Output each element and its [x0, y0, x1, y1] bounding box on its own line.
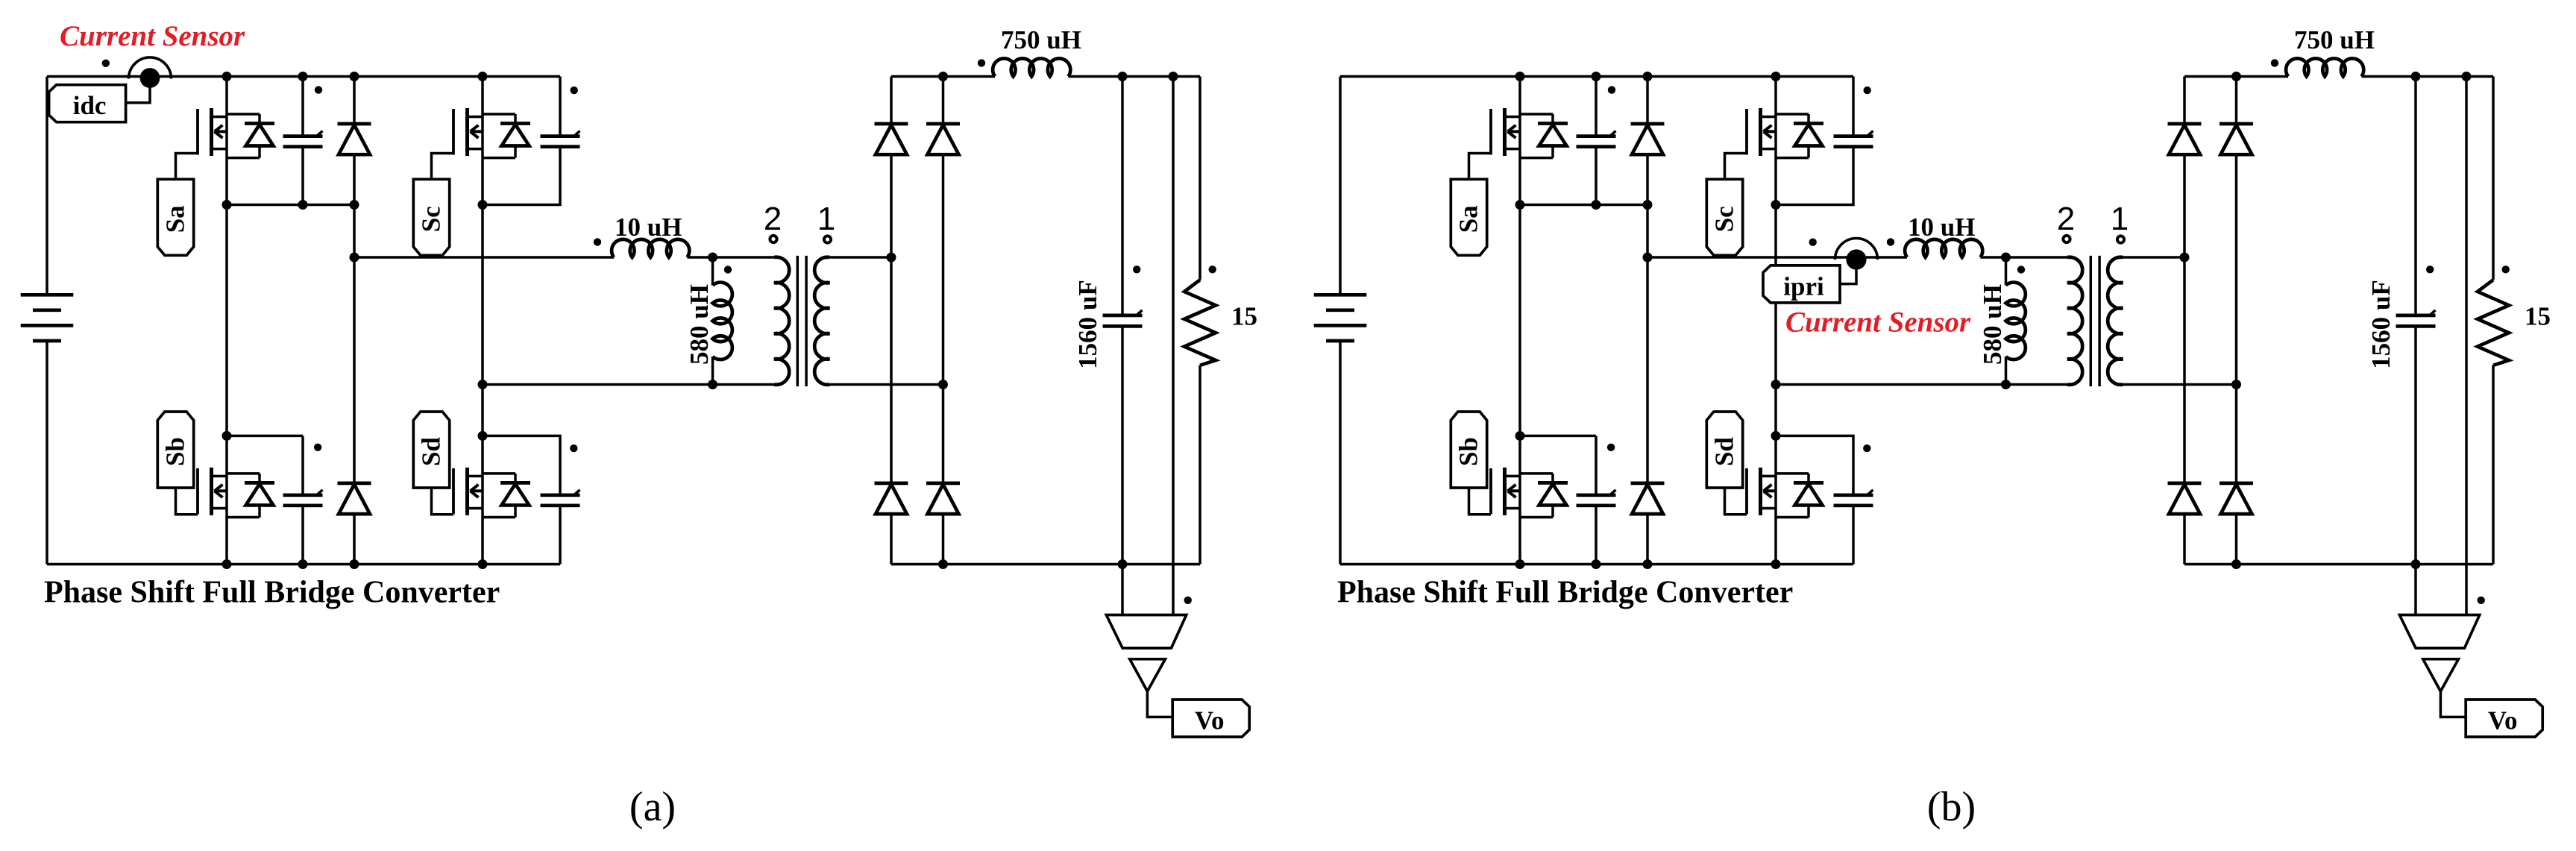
wire leg A column — [225, 77, 228, 565]
gate lead Sb — [176, 488, 198, 515]
wire mid rail leg A — [227, 204, 359, 207]
wire diode column mid — [353, 205, 356, 258]
transistor Sc — [1747, 108, 1823, 158]
wire output rail after inductor — [1068, 75, 1200, 78]
wire sensor negative lead — [1121, 565, 1124, 615]
svg-text:1: 1 — [2111, 201, 2129, 237]
node filter cap bottom — [2411, 559, 2421, 569]
gate label tag Sc — [413, 179, 449, 255]
svg-text:(b): (b) — [1927, 784, 1976, 830]
node primary top — [2001, 253, 2011, 263]
wire leg C column — [1774, 77, 1777, 565]
svg-text:10 uH: 10 uH — [615, 213, 682, 242]
wire leg A output to series inductor — [1647, 256, 1907, 259]
wire output top rail — [2184, 75, 2288, 78]
wire mid rail leg C — [483, 147, 560, 205]
node bottom rail diode A — [350, 559, 359, 569]
diode Da — [1646, 77, 1649, 125]
capacitor snubber Cd — [541, 490, 580, 565]
diode D1 rectifier — [890, 77, 893, 125]
wire sensor to Vo tag — [2440, 691, 2466, 717]
node mid rail diode A — [350, 200, 359, 210]
pin circle 1 — [824, 236, 831, 242]
marker dot voltage sensor — [2478, 597, 2485, 604]
node leg C output — [1771, 380, 1781, 389]
marker dot magnetizing inductor — [2017, 266, 2025, 273]
wire input top rail — [1340, 75, 1853, 78]
transistor Sa — [198, 108, 274, 158]
svg-text:Current Sensor: Current Sensor — [1785, 307, 1971, 339]
label tag ipri — [1763, 266, 1840, 303]
transformer secondary winding — [2108, 257, 2236, 385]
svg-text:Phase Shift Full Bridge Conver: Phase Shift Full Bridge Converter — [44, 575, 500, 609]
svg-text:Sb: Sb — [161, 437, 190, 466]
transistor Sb — [1491, 468, 1568, 518]
node mid rail Sa — [222, 200, 232, 210]
node secondary top — [2180, 253, 2190, 263]
capacitor snubber Ca — [283, 77, 323, 205]
gate label tag Sb — [157, 412, 193, 488]
capacitor snubber Cc — [541, 77, 580, 147]
voltage sensor output triangle — [1130, 659, 1166, 691]
diode Da — [353, 77, 356, 125]
svg-text:Sd: Sd — [417, 437, 446, 466]
svg-text:15: 15 — [1231, 302, 1257, 331]
marker dot load resistor — [2502, 266, 2510, 273]
marker dot output inductor — [978, 59, 985, 66]
node top rail diode A — [1643, 72, 1653, 81]
node bottom rail leg A — [222, 559, 232, 569]
marker dot filter cap — [1133, 266, 1140, 273]
inductor 580 uH magnetizing — [2006, 257, 2026, 385]
transformer secondary winding — [814, 257, 943, 385]
diode Db — [353, 257, 356, 483]
label tag idc — [49, 85, 126, 122]
node leg A output — [1643, 253, 1653, 263]
wire sensor positive lead — [2465, 77, 2468, 615]
battery V1 — [21, 77, 74, 565]
wire diode column mid — [1646, 205, 1649, 258]
node secondary top — [887, 253, 896, 263]
svg-text:Sc: Sc — [417, 206, 446, 232]
gate label tag Sb — [1451, 412, 1486, 488]
svg-text:1560 uF: 1560 uF — [2366, 280, 2396, 369]
capacitor snubber Cc — [1834, 77, 1873, 147]
node sensor column top — [2462, 72, 2472, 81]
svg-text:idc: idc — [73, 91, 107, 120]
node bottom rail leg C — [478, 559, 488, 569]
capacitor snubber Cb — [283, 436, 323, 564]
marker dot idc sensor — [102, 60, 110, 67]
svg-text:Vo: Vo — [1195, 706, 1225, 735]
svg-text:10 uH: 10 uH — [1908, 213, 1975, 242]
wire output rail after inductor — [2361, 75, 2493, 78]
transistor Sb — [198, 468, 274, 518]
marker dot magnetizing inductor — [724, 266, 732, 273]
wire rectifier right column — [2235, 385, 2238, 483]
resistor 15 load — [1184, 77, 1216, 565]
capacitor snubber Cb — [1577, 436, 1616, 564]
node Sd drain — [1771, 431, 1781, 441]
node primary bottom — [2001, 380, 2011, 389]
capacitor snubber Ca — [1577, 77, 1616, 205]
node leg A output — [350, 253, 359, 263]
transistor Sa — [1491, 108, 1568, 158]
node top rail leg A — [1515, 72, 1525, 81]
transistor Sc — [453, 108, 530, 158]
gate lead Sc — [432, 154, 454, 180]
diode Db — [1646, 257, 1649, 483]
diode D2 rectifier — [942, 77, 945, 125]
svg-text:(a): (a) — [629, 784, 676, 830]
wire sensor to Vo tag — [1147, 691, 1172, 717]
gate label tag Sc — [1706, 179, 1742, 255]
wire leg A output to series inductor — [354, 256, 614, 259]
inductor 10 uH — [1905, 239, 1982, 257]
node primary bottom — [708, 380, 717, 389]
wire leg C output to transformer — [1776, 383, 2067, 386]
node Sb drain — [1515, 431, 1525, 441]
svg-text:Sa: Sa — [1454, 205, 1483, 233]
svg-text:1: 1 — [817, 201, 835, 237]
pin circle 2 — [770, 236, 776, 242]
svg-text:Phase Shift Full Bridge Conver: Phase Shift Full Bridge Converter — [1337, 575, 1793, 609]
gate lead Sd — [1725, 488, 1747, 515]
node leg C output — [478, 380, 488, 389]
capacitor 1560 uF — [1103, 77, 1143, 565]
transformer core — [797, 256, 806, 386]
transformer primary winding — [2006, 257, 2083, 385]
svg-text:750 uH: 750 uH — [2294, 25, 2375, 54]
wire rectifier right column — [942, 385, 945, 483]
marker dot filter cap — [2426, 266, 2434, 273]
marker dot snubber Cb — [314, 444, 321, 451]
gate lead Sa — [176, 154, 198, 180]
wire Sb drain rail — [1520, 435, 1596, 438]
wire leg C column — [481, 77, 484, 565]
marker dot series inductor — [594, 238, 601, 245]
voltage sensor output triangle — [2423, 659, 2459, 691]
node rectifier bottom rail — [938, 559, 948, 569]
wire output bottom rail — [891, 563, 1200, 566]
gate lead Sb — [1469, 488, 1492, 515]
wire Sd drain rail — [1776, 436, 1853, 494]
node secondary bottom — [2231, 380, 2241, 389]
wire rectifier left column — [2183, 257, 2186, 483]
svg-text:Current Sensor: Current Sensor — [60, 20, 245, 52]
gate lead Sa — [1469, 154, 1492, 180]
marker dot snubber Ca — [315, 86, 322, 93]
marker dot series inductor — [1887, 238, 1894, 245]
node secondary bottom — [938, 380, 948, 389]
diode D4 rectifier — [2235, 482, 2238, 485]
gate label tag Sd — [413, 412, 449, 488]
gate lead Sc — [1725, 154, 1747, 180]
pin circle 1 — [2117, 236, 2124, 242]
svg-text:750 uH: 750 uH — [1001, 25, 1081, 54]
node top rail leg A — [222, 72, 232, 81]
svg-text:Sd: Sd — [1710, 437, 1739, 466]
node filter cap bottom — [1118, 559, 1128, 569]
node top rail diode A — [350, 72, 359, 81]
svg-text:580 uH: 580 uH — [1978, 284, 2007, 365]
node mid rail Sc — [478, 200, 488, 210]
svg-text:15: 15 — [2525, 302, 2551, 331]
voltage sensor Vo trapezoid — [1106, 615, 1186, 648]
svg-text:2: 2 — [764, 201, 782, 237]
node bottom rail cap A — [1592, 559, 1601, 569]
node mid rail diode A — [1643, 200, 1653, 210]
wire inductor to transformer node — [1980, 256, 2005, 259]
inductor 750 uH — [2286, 58, 2363, 76]
voltage sensor Vo trapezoid — [2399, 615, 2479, 648]
wire leg C output to transformer — [483, 383, 774, 386]
diode D2 rectifier — [2235, 77, 2238, 125]
capacitor 1560 uF — [2396, 77, 2436, 565]
svg-text:Sa: Sa — [161, 205, 190, 233]
wire mid rail leg C — [1776, 147, 1853, 205]
battery V1 — [1314, 77, 1367, 565]
wire output top rail — [891, 75, 995, 78]
diode D3 rectifier — [2183, 482, 2186, 485]
node bottom rail leg C — [1771, 559, 1781, 569]
inductor 750 uH — [993, 58, 1070, 76]
node rectifier bottom rail — [2231, 559, 2241, 569]
gate lead Sd — [432, 488, 454, 515]
inductor 10 uH — [612, 239, 689, 257]
node top rail leg C — [1771, 72, 1781, 81]
transformer primary winding — [713, 257, 790, 385]
node mid rail Sc — [1771, 200, 1781, 210]
inductor 580 uH magnetizing — [713, 257, 732, 385]
node bottom rail leg A — [1515, 559, 1525, 569]
node mid rail cap A — [1592, 200, 1601, 210]
node rectifier top rail — [2231, 72, 2241, 81]
wire input bottom rail — [47, 563, 560, 566]
label tag Vo — [1172, 700, 1249, 737]
wire sensor to ipri tag — [1840, 263, 1856, 284]
label tag Vo — [2466, 700, 2542, 737]
node primary top — [708, 253, 717, 263]
svg-text:Vo: Vo — [2488, 706, 2518, 735]
capacitor snubber Cd — [1834, 490, 1873, 565]
marker dot snubber Cc — [1864, 87, 1871, 94]
wire input top rail — [47, 75, 560, 78]
wire input bottom rail — [1340, 563, 1853, 566]
current sensor ipri circle — [1835, 239, 1878, 260]
marker dot snubber Cc — [571, 87, 578, 94]
wire inductor to transformer node — [687, 256, 712, 259]
wire rectifier left column — [890, 257, 893, 483]
transistor Sd — [1747, 468, 1823, 518]
node top rail leg C — [478, 72, 488, 81]
node Sb drain — [222, 431, 232, 441]
wire sensor positive lead — [1172, 77, 1175, 615]
gate label tag Sa — [1451, 179, 1486, 255]
node Sd drain — [478, 431, 488, 441]
wire sensor to idc tag — [125, 83, 150, 103]
svg-text:Sb: Sb — [1454, 437, 1483, 466]
node mid rail cap A — [298, 200, 308, 210]
wire sensor negative lead — [2414, 565, 2417, 615]
resistor 15 load — [2478, 77, 2509, 565]
svg-text:ipri: ipri — [1783, 271, 1824, 301]
marker dot snubber Cb — [1607, 444, 1615, 451]
transformer core — [2090, 256, 2099, 386]
marker dot load resistor — [1209, 266, 1216, 273]
wire mid rail leg A — [1520, 204, 1652, 207]
gate label tag Sa — [157, 179, 193, 255]
marker dot snubber Ca — [1608, 86, 1615, 93]
node bottom rail diode A — [1643, 559, 1653, 569]
current sensor idc circle — [129, 57, 172, 79]
svg-text:1560 uF: 1560 uF — [1073, 280, 1102, 369]
node filter cap top — [1118, 72, 1128, 81]
marker dot snubber Cd — [570, 445, 577, 452]
wire Sb drain rail — [227, 435, 303, 438]
node top rail cap A — [298, 72, 308, 81]
node top rail cap A — [1592, 72, 1601, 81]
node rectifier top rail — [938, 72, 948, 81]
pin circle 2 — [2063, 236, 2070, 242]
marker dot output inductor — [2271, 59, 2278, 66]
node sensor column top — [1169, 72, 1178, 81]
node mid rail Sa — [1515, 200, 1525, 210]
marker dot ipri sensor — [1809, 239, 1817, 246]
transistor Sd — [453, 468, 530, 518]
diode D1 rectifier — [2183, 77, 2186, 125]
node filter cap top — [2411, 72, 2421, 81]
svg-text:2: 2 — [2057, 201, 2075, 237]
gate label tag Sd — [1706, 412, 1742, 488]
marker dot voltage sensor — [1184, 597, 1192, 604]
diode D4 rectifier — [942, 482, 945, 485]
wire output bottom rail — [2184, 563, 2493, 566]
marker dot snubber Cd — [1863, 445, 1870, 452]
svg-text:580 uH: 580 uH — [685, 284, 714, 365]
node bottom rail cap A — [298, 559, 308, 569]
wire leg A column — [1518, 77, 1521, 565]
svg-text:Sc: Sc — [1710, 206, 1739, 232]
diode D3 rectifier — [890, 482, 893, 485]
wire Sd drain rail — [483, 436, 560, 494]
